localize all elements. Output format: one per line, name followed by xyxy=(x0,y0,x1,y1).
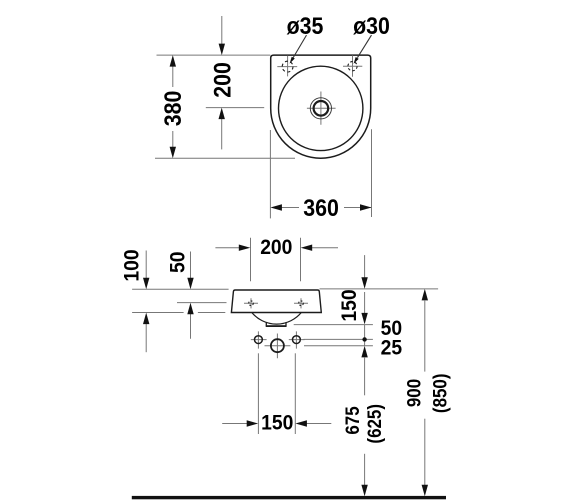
ext 150B right xyxy=(294,353,296,434)
tap hole right dashed circle xyxy=(348,62,357,71)
waste hole circle xyxy=(271,339,284,352)
floor line xyxy=(132,496,446,499)
leader ø30 xyxy=(354,35,372,64)
dim 675 bottom shaft arrow down xyxy=(361,454,367,497)
ext 200F left xyxy=(250,238,252,281)
svg-text:(625): (625) xyxy=(363,404,385,444)
svg-text:50: 50 xyxy=(167,252,190,273)
drain fitting xyxy=(266,322,286,326)
bowl underside arc xyxy=(252,313,301,325)
svg-text:25: 25 xyxy=(381,337,402,360)
svg-text:900: 900 xyxy=(402,379,424,407)
front tap cross right xyxy=(294,298,308,308)
dim 200 plan bottom arrow xyxy=(219,108,225,150)
front tap cross left xyxy=(244,298,258,308)
drain inner circle xyxy=(314,101,329,116)
fixing hole right crosshair xyxy=(289,331,305,348)
tap hole left crosshair xyxy=(277,56,297,77)
tap hole right crosshair xyxy=(343,55,362,76)
fixing hole right circle xyxy=(293,336,301,344)
dim 100 bottom arrow xyxy=(143,313,149,353)
waste hole crosshair xyxy=(265,334,291,359)
svg-text:150: 150 xyxy=(339,289,362,321)
ext line 360 right xyxy=(371,129,373,217)
fixing hole left crosshair xyxy=(251,331,267,348)
bowl circle xyxy=(279,66,363,150)
leader ø35 xyxy=(290,35,307,64)
ext bottom edge left stubs xyxy=(132,312,225,314)
ext line 360 left xyxy=(269,130,271,218)
dim 150R shaft + bottom arrow xyxy=(361,292,367,324)
body outline front xyxy=(231,290,321,313)
dim 380 arrow down xyxy=(170,147,176,159)
dim 380 arrow up xyxy=(170,55,176,67)
dim 50L top arrow xyxy=(187,252,193,290)
dim 360 arrow right xyxy=(360,204,372,210)
dim 150B right arrow xyxy=(295,420,331,426)
svg-text:200: 200 xyxy=(260,237,292,260)
svg-text:200: 200 xyxy=(208,62,235,98)
ext line plan top xyxy=(157,54,271,56)
chain 50/25 shaft with dot xyxy=(362,325,366,346)
dim 900 bottom shaft arrow down xyxy=(422,419,428,497)
dim 150B left arrow xyxy=(222,420,258,426)
dim 200F right arrow xyxy=(301,245,338,251)
svg-text:150: 150 xyxy=(261,412,293,435)
svg-text:360: 360 xyxy=(303,194,339,221)
svg-text:100: 100 xyxy=(121,249,144,281)
fitting bottom edge xyxy=(266,325,287,327)
dim 900 top arrow up xyxy=(422,289,428,372)
ext line arc bottom right xyxy=(294,324,373,326)
dim 50L bottom arrow xyxy=(187,303,193,339)
svg-text:675: 675 xyxy=(341,406,363,434)
dim 150R top arrow xyxy=(361,255,367,289)
ext top edge right xyxy=(320,288,439,290)
svg-text:ø35: ø35 xyxy=(287,12,324,39)
basin outline plan xyxy=(271,55,371,158)
ext line drain center left xyxy=(206,107,264,109)
ext line waste right xyxy=(304,345,373,347)
drain outer circle xyxy=(310,98,331,119)
svg-text:380: 380 xyxy=(159,91,186,127)
dim 675 top arrow up xyxy=(361,346,367,395)
ext tap line left stub xyxy=(177,302,227,304)
drain crosshair xyxy=(307,92,336,125)
dim 100 top arrow xyxy=(143,251,149,290)
svg-text:(850): (850) xyxy=(428,374,450,414)
dim 200F left arrow xyxy=(215,245,250,251)
tap hole left dashed circle xyxy=(282,61,293,72)
ext 150B left xyxy=(257,353,259,434)
ext top edge left xyxy=(132,288,229,290)
fixing hole left circle xyxy=(255,336,263,344)
dim 380 line xyxy=(172,66,174,147)
dim 360 line xyxy=(281,207,371,209)
ext line plan bottom xyxy=(155,157,295,159)
dim 360 arrow left xyxy=(270,204,282,210)
ext 200F right xyxy=(300,238,302,281)
svg-text:ø30: ø30 xyxy=(353,12,390,39)
dim 200 plan top arrow xyxy=(219,16,225,55)
ext line fixing holes right xyxy=(304,338,373,340)
